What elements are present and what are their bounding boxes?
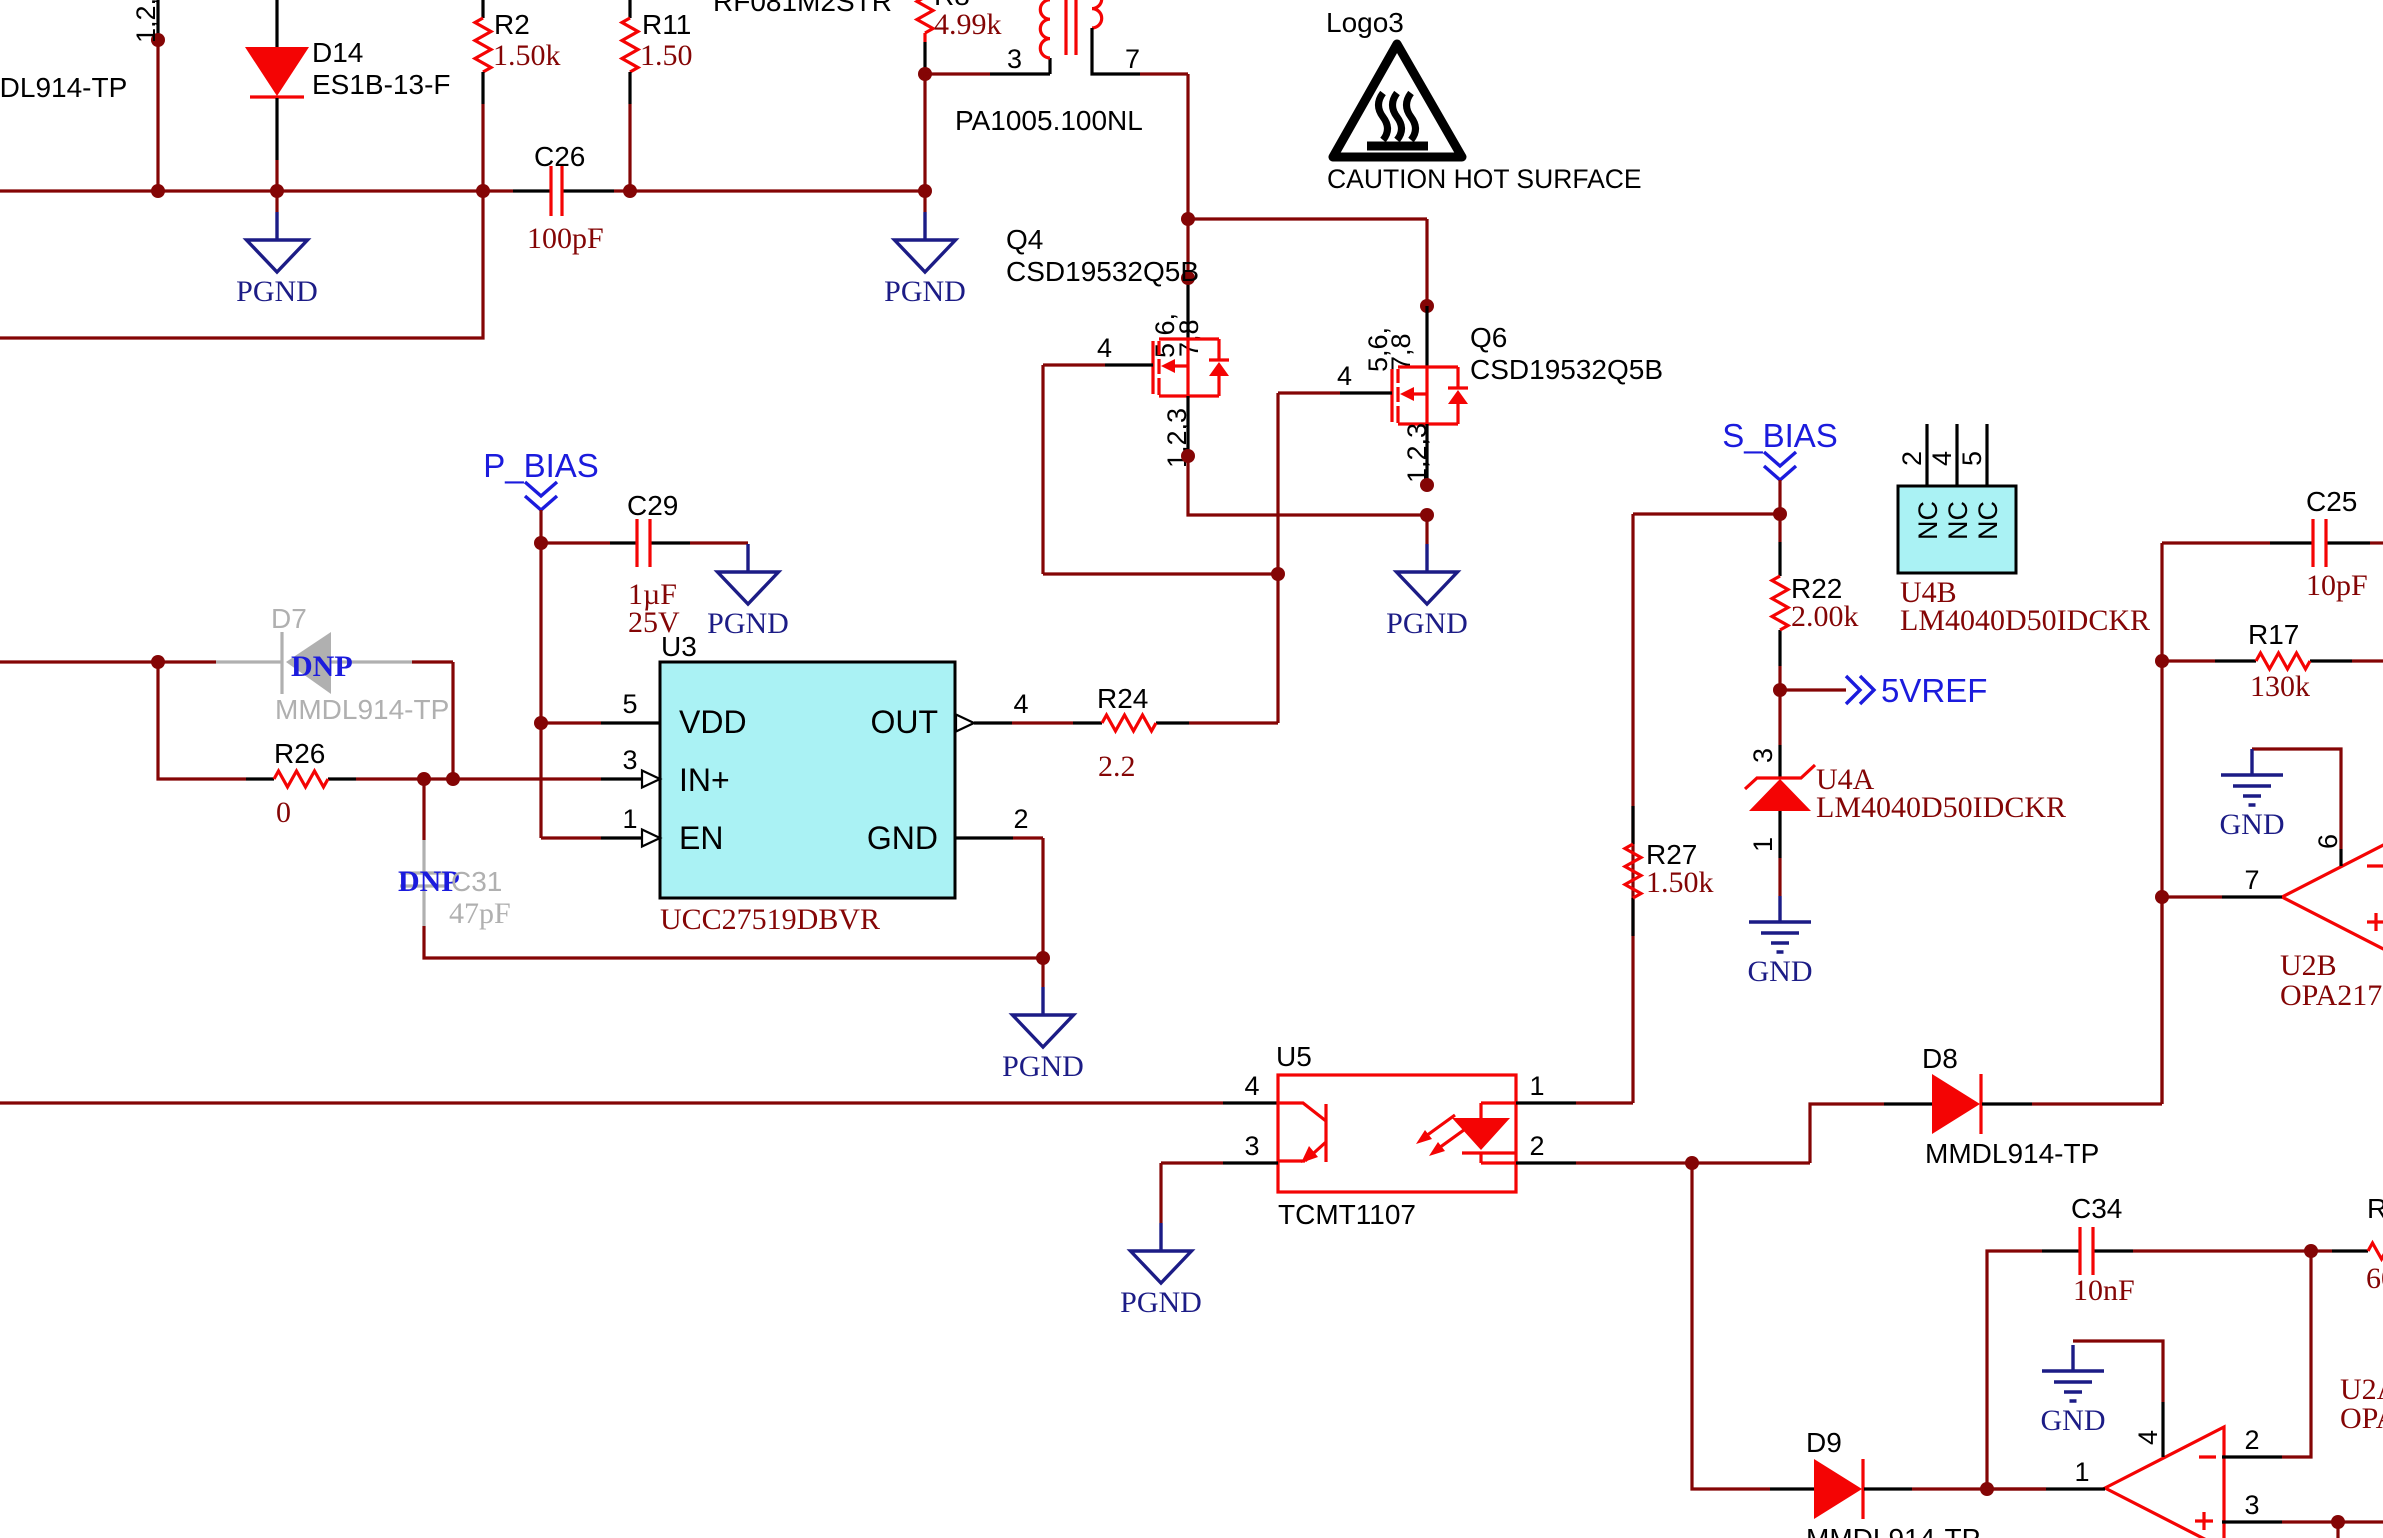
- node: junction at 1780,690: [1773, 683, 1787, 697]
- pin 7 stub (U2B): [2162, 895, 2282, 898]
- node: junction at 2311,1251: [2304, 1244, 2318, 1258]
- svg-text:MMDL914-TP: MMDL914-TP: [1925, 1138, 2099, 1169]
- ground PGND (under D14): [236, 191, 318, 308]
- svg-text:VDD: VDD: [679, 704, 747, 740]
- wire: branch down from 483,191 to second horizontal y=338: [0, 191, 483, 338]
- svg-text:DNP: DNP: [291, 650, 353, 683]
- optocoupler U5 box: [1278, 1075, 1516, 1192]
- wire: S_BIAS node to R27 rail: [1633, 512, 1780, 515]
- node: junction at 483,191: [476, 184, 490, 198]
- wire: Q6 source pin: [1425, 424, 1428, 485]
- svg-text:1.50k: 1.50k: [493, 39, 561, 72]
- IC U3 box: [660, 662, 955, 898]
- node: junction at 1043,958: [1036, 951, 1050, 965]
- resistor R22: [1772, 514, 1788, 690]
- svg-text:130k: 130k: [2250, 670, 2310, 703]
- pin 1 EN stub: [541, 830, 660, 847]
- svg-text:NC: NC: [1973, 501, 2003, 540]
- svg-text:7: 7: [2244, 865, 2259, 895]
- wire: Q4 drain stub: [1186, 219, 1189, 339]
- LED (U5 internal): [1416, 1103, 1517, 1163]
- wire: P_BIAS rail down to VDD and EN: [539, 543, 542, 838]
- net label 5VREF with chevron: [1780, 676, 1874, 704]
- resistor R18 (clipped at right edge): [2311, 1243, 2383, 1259]
- wire: Q4 source pin: [1186, 396, 1189, 456]
- svg-text:OPA2170: OPA2170: [2280, 979, 2383, 1012]
- svg-text:EN: EN: [679, 820, 723, 856]
- pin 1 stub (U2A): [1987, 1487, 2105, 1490]
- svg-text:U2B: U2B: [2280, 949, 2337, 982]
- transistor Q6: [1392, 367, 1468, 424]
- node: junction at 1427,485: [1420, 478, 1434, 492]
- svg-text:1: 1: [1748, 837, 1778, 852]
- ground PGND (U5 pin3): [1120, 1223, 1202, 1319]
- svg-text:0: 0: [276, 796, 291, 829]
- svg-text:1: 1: [1529, 1071, 1544, 1101]
- wire: long net into U5 pin 4: [0, 1101, 1278, 1104]
- svg-text:OUT: OUT: [870, 704, 938, 740]
- svg-text:5: 5: [622, 689, 637, 719]
- svg-text:1.50k: 1.50k: [1646, 866, 1714, 899]
- node: junction at 1427,306: [1420, 299, 1434, 313]
- transformer secondary lead pin 7: [1092, 28, 1188, 74]
- wire: D7 net: [0, 662, 453, 779]
- pin 2 stub (U2A): [2222, 1455, 2282, 1458]
- pin 6 stub (U2B): [2252, 749, 2341, 866]
- node: junction at 2162,661: [2155, 654, 2169, 668]
- pin stubs U4B (2,4,5): [1927, 424, 1987, 486]
- svg-text:3: 3: [2244, 1490, 2259, 1520]
- pin 4 stub (U2A): [2073, 1341, 2163, 1457]
- capacitor C31 (DNP, gray): [400, 779, 1043, 958]
- resistor R17: [2162, 653, 2383, 669]
- svg-text:C34: C34: [2071, 1193, 2122, 1224]
- node: junction at 1780,514: [1773, 507, 1787, 521]
- diode D14: [245, 0, 309, 191]
- node: junction at 1188,456: [1181, 449, 1195, 463]
- svg-text:CSD19532Q5B: CSD19532Q5B: [1006, 256, 1199, 287]
- transistor (U5 internal phototransistor): [1278, 1103, 1326, 1163]
- svg-text:OPA: OPA: [2340, 1402, 2383, 1435]
- node: junction at 2338,1522: [2331, 1515, 2345, 1529]
- pin 3 stub (U5): [1161, 1163, 1278, 1223]
- minus sign (U2A): [2199, 1455, 2216, 1458]
- svg-text:10nF: 10nF: [2073, 1274, 2135, 1307]
- ground GND (U2B): [2220, 749, 2285, 841]
- resistor R2: [475, 0, 491, 191]
- svg-text:5VREF: 5VREF: [1881, 672, 1987, 709]
- svg-text:D14: D14: [312, 37, 363, 68]
- node: junction at 1278,574: [1271, 567, 1285, 581]
- svg-text:CSD19532Q5B: CSD19532Q5B: [1470, 354, 1663, 385]
- svg-text:D9: D9: [1806, 1427, 1842, 1458]
- pin 2 GND stub: [955, 838, 1043, 958]
- svg-text:3: 3: [1007, 44, 1022, 74]
- wire: Q4 gate lead: [1043, 365, 1278, 574]
- wire: down to D9: [1692, 1163, 1770, 1489]
- svg-text:2.00k: 2.00k: [1791, 600, 1859, 633]
- op-amp U2B: [2282, 836, 2383, 958]
- wire: down to R26: [158, 662, 246, 779]
- svg-text:4: 4: [1097, 333, 1112, 363]
- svg-text:GND: GND: [867, 820, 938, 856]
- svg-text:D7: D7: [271, 603, 307, 634]
- svg-text:4: 4: [1013, 689, 1028, 719]
- svg-text:C31: C31: [451, 866, 502, 897]
- svg-text:6: 6: [2313, 834, 2343, 849]
- svg-text:S_BIAS: S_BIAS: [1722, 417, 1838, 454]
- svg-text:LM4040D50IDCKR: LM4040D50IDCKR: [1816, 791, 2066, 824]
- pin 4 OUT stub: [956, 715, 1012, 732]
- node: junction at 2162,897: [2155, 890, 2169, 904]
- node: junction at 1188,219: [1181, 212, 1195, 226]
- node: junction at 541,543: [534, 536, 548, 550]
- ground PGND (Q6 source): [1386, 515, 1468, 640]
- pin 1 stub (U5): [1516, 514, 1633, 1103]
- wire: Q6 gate lead: [1278, 393, 1392, 723]
- svg-text:CAUTION HOT SURFACE: CAUTION HOT SURFACE: [1327, 164, 1642, 194]
- svg-text:MMDL914-TP: MMDL914-TP: [1806, 1523, 1980, 1538]
- ground PGND (U3 GND): [1002, 958, 1084, 1083]
- diode D8: [1884, 897, 2162, 1134]
- plus sign (U2A): [2195, 1512, 2213, 1530]
- svg-text:Logo3: Logo3: [1326, 7, 1404, 38]
- resistor R11: [622, 0, 638, 191]
- svg-text:5: 5: [1957, 451, 1987, 466]
- capacitor C25: [2162, 519, 2383, 567]
- transformer core: [1066, 0, 1076, 55]
- svg-text:Q4: Q4: [1006, 224, 1043, 255]
- capacitor C29: [541, 519, 748, 567]
- power symbol S_BIAS chevron: [1764, 452, 1796, 514]
- pin 2 stub (U5): [1516, 1161, 1810, 1164]
- svg-text:Q6: Q6: [1470, 322, 1507, 353]
- diode D9: [1770, 1459, 2046, 1519]
- wire: C34 branch up from D9 node: [1987, 1251, 2042, 1489]
- power symbol P_BIAS chevron: [525, 482, 557, 543]
- svg-text:RF081M2STR: RF081M2STR: [713, 0, 892, 17]
- svg-text:1.50: 1.50: [640, 39, 693, 72]
- wire: pin7 down to Q4 drain node: [1186, 74, 1189, 219]
- svg-text:TCMT1107: TCMT1107: [1278, 1199, 1416, 1230]
- svg-text:47pF: 47pF: [449, 897, 511, 930]
- svg-text:IN+: IN+: [679, 762, 730, 798]
- svg-text:2: 2: [2244, 1425, 2259, 1455]
- transistor Q4: [1153, 339, 1229, 396]
- wire: right vertical rail x=2162: [2160, 543, 2163, 1104]
- resistor R8 (clipped at top): [917, 0, 933, 74]
- svg-text:4: 4: [1927, 451, 1957, 466]
- svg-text:3: 3: [1748, 748, 1778, 763]
- wire: main top horizontal net y=191: [0, 189, 925, 192]
- svg-text:3: 3: [622, 745, 637, 775]
- svg-text:1: 1: [622, 804, 637, 834]
- ground PGND (C29): [707, 544, 789, 640]
- svg-text:R17: R17: [2248, 619, 2299, 650]
- svg-text:4: 4: [2133, 1430, 2163, 1445]
- node: junction at 925,191: [918, 184, 932, 198]
- node: junction at 1427,515: [1420, 508, 1434, 522]
- ground GND (U4A): [1748, 896, 1813, 988]
- svg-text:R26: R26: [274, 738, 325, 769]
- pin 3 IN+ stub: [453, 771, 660, 788]
- capacitor C34: [2042, 1227, 2311, 1275]
- svg-text:P_BIAS: P_BIAS: [483, 447, 599, 484]
- svg-text:C25: C25: [2306, 486, 2357, 517]
- ground PGND (transformer primary): [884, 191, 966, 308]
- node: junction at 277,191: [270, 184, 284, 198]
- node: junction at 158,662: [151, 655, 165, 669]
- wire: Q4 source to Q6 source: [1188, 456, 1427, 515]
- svg-text:2: 2: [1529, 1131, 1544, 1161]
- wire: connector pin stub x=158: [156, 0, 159, 191]
- svg-text:3: 3: [1244, 1131, 1259, 1161]
- svg-text:1,2,: 1,2,: [131, 0, 161, 43]
- svg-text:C29: C29: [627, 490, 678, 521]
- minus sign (U2B): [2367, 864, 2383, 867]
- svg-text:4: 4: [1337, 361, 1352, 391]
- svg-text:D8: D8: [1922, 1043, 1958, 1074]
- resistor R24: [1012, 715, 1278, 731]
- svg-text:U3: U3: [661, 631, 697, 662]
- ground GND (U2A): [2041, 1345, 2106, 1437]
- capacitor C26: [513, 166, 614, 216]
- svg-text:UCC27519DBVR: UCC27519DBVR: [660, 903, 880, 936]
- resistor R26: [246, 771, 453, 787]
- resistor R27 (in series on x=1633): [1625, 806, 1641, 936]
- svg-text:LM4040D50IDCKR: LM4040D50IDCKR: [1900, 604, 2150, 637]
- svg-text:MMDL914-TP: MMDL914-TP: [0, 72, 127, 103]
- svg-text:R2: R2: [494, 9, 530, 40]
- svg-text:NC: NC: [1943, 501, 1973, 540]
- node: junction at 424,779: [417, 772, 431, 786]
- node: junction at 925,74: [918, 67, 932, 81]
- svg-text:10pF: 10pF: [2306, 569, 2368, 602]
- node: junction at 1987,1489: [1980, 1482, 1994, 1496]
- svg-text:7,8: 7,8: [1386, 333, 1416, 371]
- svg-text:1: 1: [2074, 1457, 2089, 1487]
- node: junction at 1188,278: [1181, 271, 1195, 285]
- wire: R8 node down to main net: [923, 74, 926, 191]
- svg-text:C26: C26: [534, 141, 585, 172]
- plus sign (U2B): [2367, 913, 2383, 931]
- pin 3 stub (U2A): [2222, 1522, 2383, 1538]
- svg-text:60.4: 60.4: [2366, 1262, 2383, 1295]
- node: junction at 158,40: [151, 33, 165, 47]
- svg-text:U5: U5: [1276, 1041, 1312, 1072]
- pin 5 VDD stub: [541, 721, 660, 724]
- svg-text:NC: NC: [1913, 501, 1943, 540]
- svg-text:2: 2: [1897, 451, 1927, 466]
- wire: feedback down to U2A pin 2: [2282, 1251, 2311, 1457]
- transformer right winding (clipped at top): [1092, 0, 1102, 28]
- transformer PA1005.100NL left winding: [1040, 0, 1050, 58]
- svg-text:R11: R11: [642, 9, 691, 40]
- wire: across to Q6 drain: [1188, 219, 1427, 306]
- node: junction at 541,723: [534, 716, 548, 730]
- wire: up to D8: [1810, 1104, 1884, 1163]
- svg-text:7: 7: [1125, 44, 1140, 74]
- svg-text:2.2: 2.2: [1098, 750, 1136, 783]
- diode D7 (DNP, gray): [216, 632, 412, 694]
- wire: Q6 drain stub: [1425, 306, 1428, 367]
- svg-text:2: 2: [1013, 804, 1028, 834]
- op-amp U2A: [2105, 1427, 2224, 1538]
- svg-text:4.99k: 4.99k: [934, 8, 1002, 41]
- svg-text:PA1005.100NL: PA1005.100NL: [955, 105, 1143, 136]
- transformer T primary lead pin 3: [925, 58, 1050, 74]
- node: junction at 453,779: [446, 772, 460, 786]
- logo: caution hot surface triangle: [1333, 44, 1462, 157]
- svg-text:ES1B-13-F: ES1B-13-F: [312, 69, 451, 100]
- svg-text:MMDL914-TP: MMDL914-TP: [275, 694, 449, 725]
- zener diode U4A: [1745, 690, 1815, 896]
- svg-text:4: 4: [1244, 1071, 1259, 1101]
- node: junction at 158,191: [151, 184, 165, 198]
- node: junction at 630,191: [623, 184, 637, 198]
- IC U4B box: [1898, 486, 2016, 573]
- svg-text:R18: R18: [2367, 1193, 2383, 1224]
- node: junction at 1692,1163: [1685, 1156, 1699, 1170]
- svg-text:R24: R24: [1097, 683, 1148, 714]
- svg-text:100pF: 100pF: [527, 222, 604, 255]
